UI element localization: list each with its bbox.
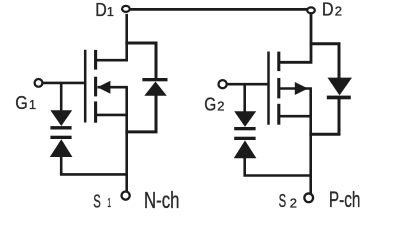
wire gate-protection branch Q1 (60, 83, 63, 111)
wire top rail D1-D2 (130, 8, 307, 11)
wire gate-protection branch Q2 (243, 84, 246, 112)
mosfet Q1 gate bar (84, 50, 87, 123)
svg-text:2: 2 (335, 4, 342, 19)
protection diode Z1 (upper, pointing down) (50, 110, 72, 126)
mosfet Q2 body arrow (points right, P-ch) (295, 82, 308, 95)
wire body-diode bottom branch Q2 (309, 98, 339, 134)
svg-text:1: 1 (107, 195, 111, 210)
protection diode Z3 (upper, pointing down) (234, 111, 256, 127)
svg-text:P-ch: P-ch (329, 187, 361, 212)
mosfet Q2 gate bar (267, 52, 270, 125)
body diode D2b cathode bar (327, 96, 351, 100)
terminal S1 (122, 192, 130, 200)
protection diode Z3 cathode bar (234, 127, 255, 130)
svg-text:S: S (279, 191, 287, 211)
svg-text:S: S (93, 192, 101, 212)
svg-text:1: 1 (29, 97, 36, 112)
wire drain vertical Q1 (97, 14, 127, 60)
wire between protection diodes and source return Q1 (61, 156, 127, 174)
wire body stub Q2 (arrow line) (279, 87, 312, 90)
svg-text:G: G (204, 94, 216, 114)
wire body stub Q1 (arrow line) (98, 86, 128, 89)
mosfet Q1 body arrow (points left, N-ch) (97, 81, 110, 94)
svg-text:D: D (95, 0, 107, 20)
svg-text:2: 2 (217, 99, 224, 114)
terminal D1 (122, 6, 130, 12)
svg-text:N-ch: N-ch (144, 187, 180, 213)
svg-text:G: G (15, 93, 28, 113)
wire source vertical to S1 (125, 115, 128, 191)
wire drain vertical Q2 (279, 14, 311, 62)
terminal D2 (307, 7, 315, 13)
svg-text:D: D (322, 0, 334, 20)
wire source stub Q1 (97, 114, 128, 117)
protection diode Z1 cathode bar (50, 126, 71, 129)
wire source vertical to S2 (309, 116, 312, 193)
protection diode Z2 cathode bar (50, 136, 71, 139)
wire gate G2 (227, 83, 270, 86)
wire source stub Q2 (279, 115, 312, 118)
mosfet Q2 channel segments (277, 52, 280, 125)
wire body-to-source vertical Q1 (125, 87, 128, 116)
wire body-to-source vertical Q2 (309, 89, 312, 118)
body diode D2b triangle (pointing down) (328, 78, 353, 96)
wire gate G1 (43, 82, 86, 85)
wire between protection diodes and source return Q2 (245, 158, 312, 176)
terminal G1 (35, 79, 43, 87)
terminal S2 (304, 193, 313, 202)
svg-text:1: 1 (107, 4, 114, 19)
body diode D1b cathode bar (142, 78, 167, 81)
wire body-diode top branch Q1 (125, 43, 156, 79)
mosfet Q1 channel segments (94, 50, 97, 123)
protection diode Z4 cathode bar (234, 137, 255, 140)
protection diode Z4 (pointing up) (234, 140, 257, 158)
wire body-diode top branch Q2 (310, 44, 339, 79)
wire body-diode bottom branch Q1 (125, 95, 156, 132)
protection diode Z2 (pointing up) (50, 139, 73, 157)
body diode D1b triangle (pointing up) (144, 82, 167, 96)
terminal G2 (219, 80, 227, 88)
svg-text:2: 2 (290, 196, 297, 211)
